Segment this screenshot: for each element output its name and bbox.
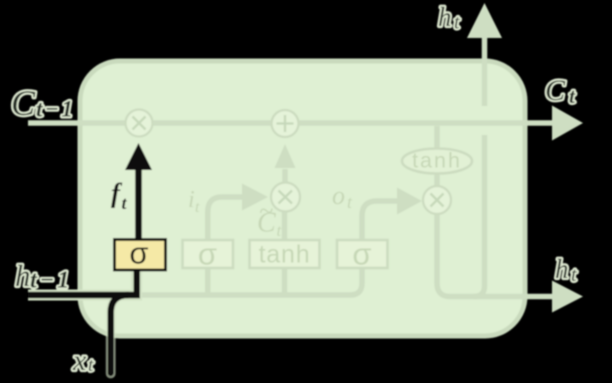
svg-text:tanh: tanh	[259, 241, 311, 269]
svg-text:t: t	[88, 355, 94, 376]
svg-text:σ: σ	[198, 237, 217, 272]
svg-text:t: t	[195, 199, 200, 216]
svg-text:tanh: tanh	[412, 149, 462, 173]
svg-text:t−1: t−1	[30, 268, 72, 294]
svg-text:C: C	[545, 74, 566, 107]
svg-text:~: ~	[259, 197, 273, 226]
svg-text:C: C	[11, 83, 36, 123]
svg-text:o: o	[332, 181, 345, 210]
svg-text:t: t	[571, 264, 577, 286]
svg-text:t: t	[454, 12, 460, 34]
svg-text:σ: σ	[129, 236, 148, 271]
svg-text:h: h	[555, 254, 569, 284]
svg-text:t−1: t−1	[36, 97, 75, 122]
svg-text:h: h	[438, 2, 452, 32]
svg-text:h: h	[15, 258, 31, 293]
svg-text:x: x	[72, 344, 87, 377]
svg-text:i: i	[188, 187, 195, 213]
svg-text:σ: σ	[352, 237, 371, 272]
